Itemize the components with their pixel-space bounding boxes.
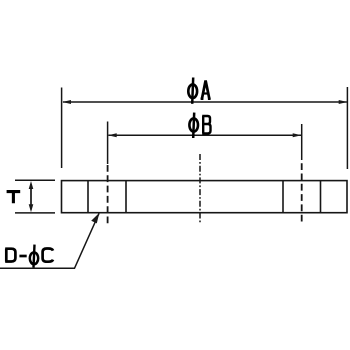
arrowhead phiB right <box>293 133 302 137</box>
phi of phiA : ellipse <box>188 84 197 98</box>
extension line T bottom <box>15 212 55 214</box>
D <box>5 249 15 262</box>
extension line phiB left <box>107 122 109 165</box>
dimension line phiA <box>63 101 347 103</box>
B of phiB <box>202 116 210 133</box>
phi of phiB : ellipse <box>189 118 198 131</box>
bolt hole left, right edge <box>125 181 127 213</box>
hyphen <box>19 255 26 258</box>
flange centerline (dash-dot) <box>199 154 201 223</box>
bolt hole left centerline (dashed) <box>107 165 109 223</box>
label phiA <box>188 78 210 104</box>
dimension line T (vertical) <box>30 184 32 210</box>
bolt hole right, right edge <box>320 181 322 213</box>
dimension line phiB <box>109 134 302 136</box>
bolt hole left, left edge <box>87 181 89 213</box>
arrowhead T bottom <box>29 204 34 212</box>
arrowhead T top <box>29 181 34 189</box>
extension line phiA left <box>61 88 63 169</box>
phi of D-phiC : ellipse <box>30 252 38 264</box>
extension line phiB right <box>301 124 303 160</box>
arrowhead phiA right <box>339 100 348 104</box>
flange body rectangle <box>62 181 348 213</box>
A of phiA <box>202 81 210 100</box>
label T <box>7 192 21 204</box>
label D-phiC <box>5 245 53 268</box>
extension line T top <box>15 179 55 181</box>
arrowhead phiB left <box>108 133 117 137</box>
phi of phiA : stem <box>192 78 193 104</box>
extension line phiA right <box>346 87 348 169</box>
phi of phiB : stem <box>193 113 194 138</box>
bolt hole right, left edge <box>282 181 284 213</box>
phi of D-phiC : stem <box>34 245 35 268</box>
arrowhead leader D-phiC <box>91 213 99 224</box>
leader line D-phiC underline <box>0 214 99 269</box>
C <box>43 249 53 262</box>
label phiB <box>189 113 210 138</box>
bolt hole right centerline (dashed) <box>301 163 303 222</box>
arrowhead phiA left <box>62 100 71 104</box>
